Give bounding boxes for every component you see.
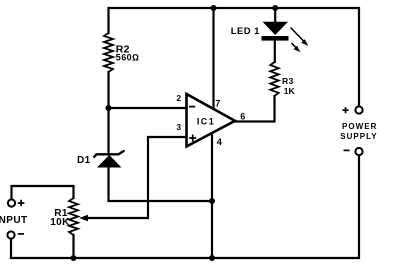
svg-text:D1: D1 bbox=[77, 155, 91, 166]
svg-text:IC1: IC1 bbox=[197, 117, 215, 127]
svg-text:2: 2 bbox=[176, 93, 181, 103]
svg-text:SUPPLY: SUPPLY bbox=[340, 132, 377, 141]
svg-text:4: 4 bbox=[217, 137, 223, 148]
svg-text:560Ω: 560Ω bbox=[116, 53, 140, 63]
svg-text:10K: 10K bbox=[50, 217, 70, 228]
svg-text:6: 6 bbox=[240, 112, 245, 122]
svg-text:INPUT: INPUT bbox=[0, 215, 28, 226]
svg-text:LED 1: LED 1 bbox=[231, 26, 260, 37]
svg-text:POWER: POWER bbox=[342, 122, 377, 131]
svg-text:R3: R3 bbox=[282, 76, 294, 86]
svg-text:7: 7 bbox=[215, 98, 220, 108]
svg-text:3: 3 bbox=[176, 122, 181, 132]
svg-text:1K: 1K bbox=[284, 86, 296, 96]
